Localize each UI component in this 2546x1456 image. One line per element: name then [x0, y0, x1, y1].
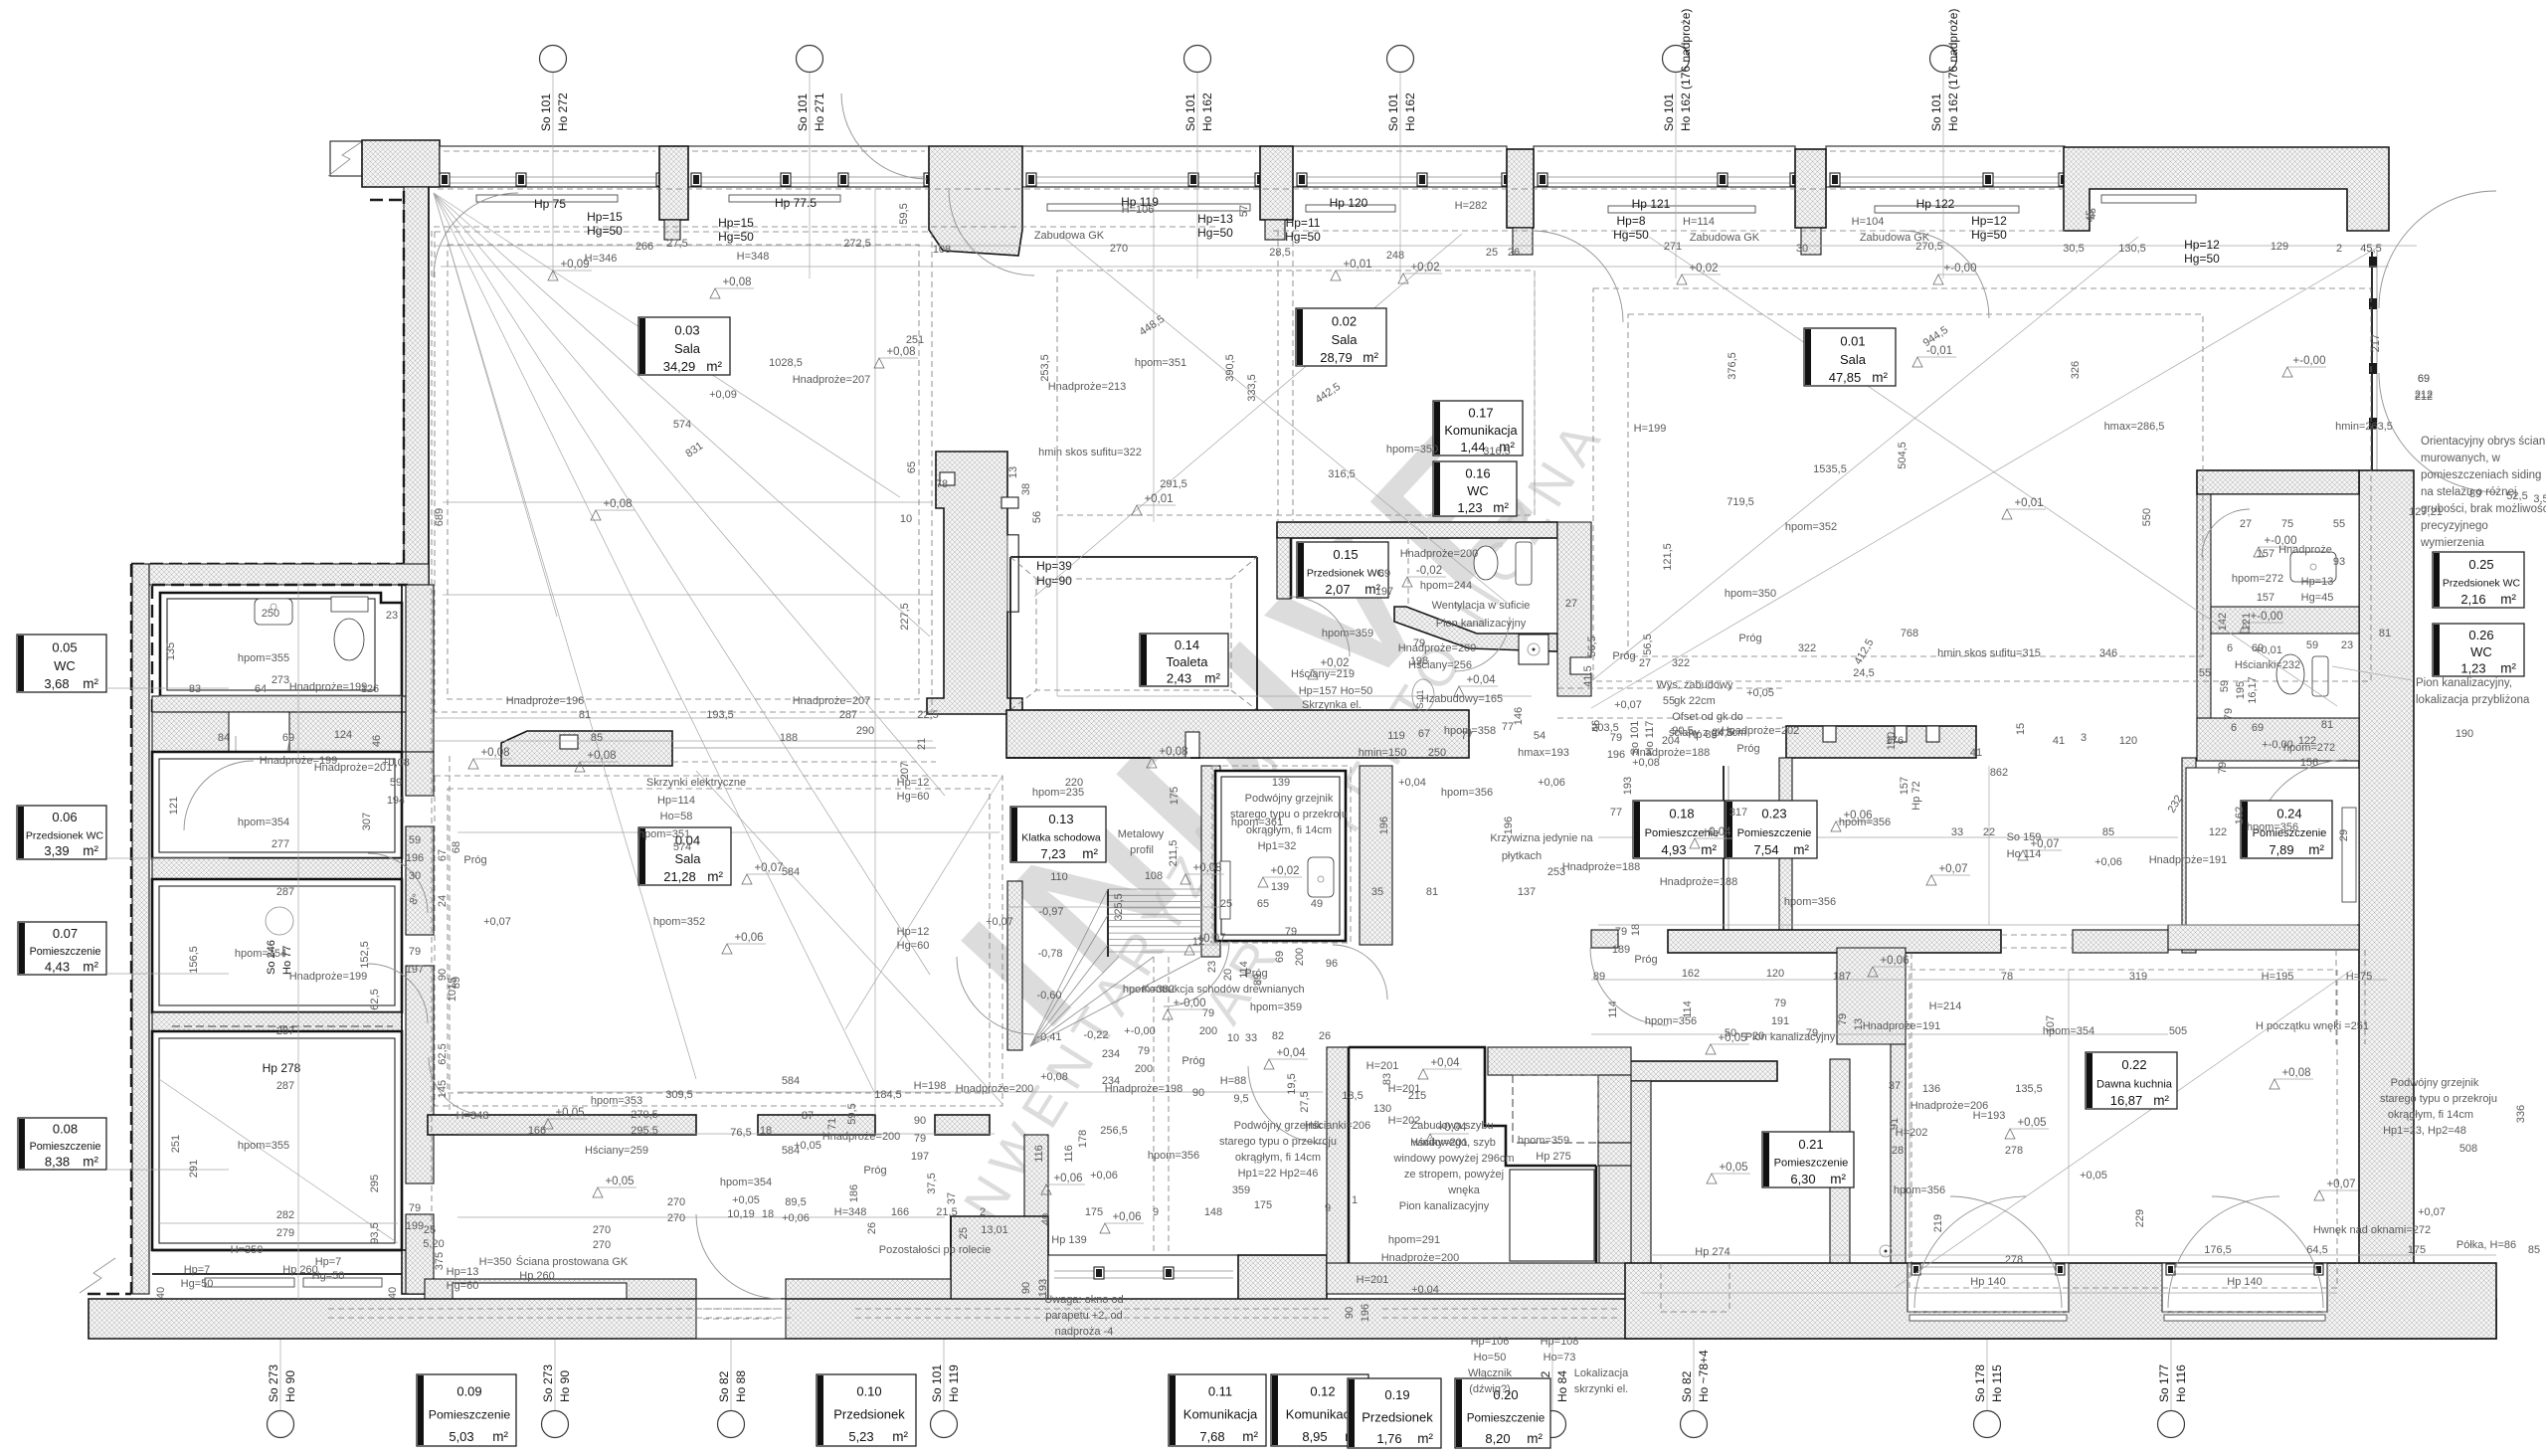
room box 0.14 — [1140, 634, 1228, 686]
svg-text:2,16: 2,16 — [2460, 592, 2485, 607]
room box 0.16 — [1433, 461, 1517, 516]
svg-text:200: 200 — [1135, 1063, 1153, 1075]
room box 0.08 Pomieszczenie — [18, 1118, 106, 1170]
svg-text:m²: m² — [1830, 1172, 1846, 1186]
radiator — [1220, 861, 1230, 919]
svg-text:m²: m² — [1701, 842, 1717, 857]
svg-text:316,5: 316,5 — [1328, 468, 1356, 480]
svg-text:1,23: 1,23 — [2460, 660, 2485, 675]
door arc 7 — [429, 1057, 486, 1115]
svg-text:+0,01: +0,01 — [2014, 497, 2043, 509]
svg-text:H=114: H=114 — [1683, 216, 1715, 228]
svg-text:116: 116 — [1033, 1145, 1045, 1163]
svg-text:Hp 72: Hp 72 — [1910, 781, 1922, 810]
svg-text:1535,5: 1535,5 — [1813, 463, 1847, 475]
svg-text:307: 307 — [361, 813, 373, 830]
svg-text:hmin=150: hmin=150 — [1359, 747, 1407, 759]
elevation marker +0,04 — [1264, 1059, 1274, 1069]
grid bubble So 82/Ho 88 — [718, 1411, 745, 1438]
svg-text:333,5: 333,5 — [1246, 374, 1258, 402]
elevation marker +0,08 — [2270, 1079, 2279, 1089]
svg-text:m²: m² — [2153, 1093, 2169, 1108]
svg-text:m²: m² — [1242, 1429, 1258, 1444]
svg-text:33: 33 — [1951, 826, 1963, 838]
svg-text:Próg: Próg — [1738, 633, 1761, 644]
elevation marker +0,05 — [2005, 1129, 2015, 1139]
room 0.22 dashed inner — [1909, 970, 2337, 1288]
svg-text:hpom=350: hpom=350 — [1386, 444, 1438, 455]
svg-text:65: 65 — [906, 461, 918, 473]
svg-text:Hnadproże=200: Hnadproże=200 — [1400, 548, 1479, 560]
svg-text:Hp 140: Hp 140 — [1970, 1276, 2005, 1288]
svg-text:(dźwig?): (dźwig?) — [1469, 1383, 1511, 1395]
svg-text:Hp 278: Hp 278 — [263, 1061, 301, 1075]
door arc 1 — [434, 193, 518, 277]
door arc 6 — [184, 761, 254, 830]
svg-text:21,28: 21,28 — [663, 869, 696, 884]
landing room dashed outline — [1212, 766, 1351, 943]
svg-text:wymierzenia: wymierzenia — [2420, 537, 2485, 549]
svg-text:Zabudowa GK: Zabudowa GK — [1690, 232, 1760, 244]
svg-text:Hg=50: Hg=50 — [587, 224, 623, 238]
svg-text:291: 291 — [188, 1160, 200, 1178]
svg-text:pomieszczeniach siding: pomieszczeniach siding — [2421, 469, 2541, 481]
window — [453, 1283, 627, 1299]
svg-text:+0,07: +0,07 — [754, 862, 783, 874]
svg-text:211,5: 211,5 — [1168, 840, 1180, 867]
room box 0.02 Sala — [1296, 308, 1386, 366]
svg-text:Hp=7: Hp=7 — [315, 1256, 342, 1268]
svg-text:profil: profil — [1130, 844, 1154, 856]
door arc 20 — [2202, 509, 2250, 557]
svg-text:37,5: 37,5 — [926, 1173, 938, 1193]
svg-text:0.17: 0.17 — [1468, 406, 1493, 421]
svg-text:hpom=356: hpom=356 — [1645, 1015, 1697, 1027]
svg-text:52,5: 52,5 — [2506, 490, 2527, 502]
svg-text:119: 119 — [1387, 730, 1405, 742]
window inner dashed — [1538, 150, 1791, 152]
svg-text:Pomieszczenie: Pomieszczenie — [1774, 1158, 1849, 1170]
elevation marker +0,05 — [593, 1187, 603, 1197]
svg-text:-0,97: -0,97 — [1038, 906, 1063, 918]
svg-text:hpom=351: hpom=351 — [638, 828, 690, 840]
room 0.21 top band — [1620, 1061, 1777, 1081]
svg-text:505: 505 — [2169, 1025, 2187, 1037]
svg-text:26: 26 — [1319, 1030, 1331, 1042]
central pier between 0.03 and 0.02 — [927, 452, 1022, 714]
svg-text:24,5: 24,5 — [1853, 667, 1874, 679]
svg-text:6: 6 — [2227, 642, 2233, 654]
svg-text:77: 77 — [1461, 730, 1473, 742]
svg-text:-0,22: -0,22 — [1083, 1029, 1108, 1041]
window mullion — [1255, 173, 1265, 186]
svg-text:508: 508 — [2459, 1143, 2477, 1155]
svg-text:windowy powyżej 296cm: windowy powyżej 296cm — [1392, 1153, 1514, 1165]
svg-text:Pozostałości po rolecie: Pozostałości po rolecie — [879, 1244, 992, 1256]
svg-text:Hg=50: Hg=50 — [1197, 226, 1233, 240]
block west wall — [2197, 494, 2211, 758]
svg-text:hpom=351: hpom=351 — [1135, 357, 1186, 369]
diagonals room 0.22 — [1895, 970, 2352, 1288]
svg-text:H=348: H=348 — [737, 251, 770, 263]
grid bubble So 101/Ho 119 — [931, 1411, 958, 1438]
svg-text:186: 186 — [848, 1184, 860, 1202]
watermark INWENTARYZACJA — [939, 688, 1322, 1251]
svg-text:Ho=50: Ho=50 — [1474, 1352, 1507, 1364]
svg-text:H=348: H=348 — [456, 1110, 489, 1122]
svg-text:256,5: 256,5 — [1100, 1125, 1128, 1137]
svg-text:Ho 90: Ho 90 — [283, 1370, 297, 1402]
svg-text:253: 253 — [1547, 866, 1565, 878]
svg-text:8,95: 8,95 — [1302, 1429, 1327, 1444]
room 0.02 dashed outline — [1057, 271, 1535, 515]
svg-text:56: 56 — [1031, 511, 1043, 523]
room box 0.05 WC — [17, 635, 106, 692]
elevation marker +0,02 — [1308, 669, 1318, 679]
svg-text:3: 3 — [2081, 732, 2087, 744]
elevation marker +0,07 — [2314, 1190, 2324, 1200]
slanted wall piece under 0.15 — [1394, 607, 1557, 651]
wall right of bay — [1238, 1255, 1327, 1303]
svg-text:79: 79 — [2223, 708, 2235, 720]
svg-text:Ho 162: Ho 162 — [1200, 92, 1214, 131]
elevation marker +-0,00 — [2240, 623, 2250, 633]
svg-text:0.05: 0.05 — [52, 639, 77, 654]
svg-text:+0,02: +0,02 — [1689, 263, 1718, 274]
window inner dashed — [692, 150, 925, 152]
svg-text:H=88: H=88 — [1220, 1075, 1247, 1087]
pillar P1 — [659, 146, 688, 220]
svg-text:So 159: So 159 — [2007, 831, 2042, 843]
svg-text:Ofset od gk do: Ofset od gk do — [1672, 711, 1743, 723]
svg-text:Dawna kuchnia: Dawna kuchnia — [2096, 1078, 2173, 1090]
svg-text:Hnadproże: Hnadproże — [2278, 544, 2332, 556]
svg-text:40: 40 — [387, 1287, 399, 1299]
svg-text:m²: m² — [83, 676, 98, 691]
svg-text:Hnadproże=198: Hnadproże=198 — [1105, 1083, 1183, 1095]
svg-text:137: 137 — [1518, 886, 1536, 898]
svg-text:okrągłym, fi 14cm: okrągłym, fi 14cm — [2388, 1109, 2473, 1121]
svg-text:Pomieszczenie: Pomieszczenie — [1467, 1411, 1546, 1424]
svg-text:270: 270 — [593, 1239, 611, 1251]
svg-text:Hp=8: Hp=8 — [1616, 214, 1645, 228]
svg-text:130,5: 130,5 — [2118, 243, 2146, 255]
svg-text:Komunikacja: Komunikacja — [1183, 1407, 1258, 1422]
svg-text:23: 23 — [2341, 639, 2353, 651]
svg-text:59,5: 59,5 — [846, 1103, 858, 1124]
svg-text:30: 30 — [409, 870, 421, 882]
svg-text:37: 37 — [1889, 1080, 1901, 1092]
svg-text:Pomieszczenie: Pomieszczenie — [1737, 827, 1812, 839]
svg-text:Pion kanalizacyjny: Pion kanalizacyjny — [1399, 1200, 1490, 1212]
elevation marker +0,06 — [1100, 1223, 1110, 1233]
svg-text:287: 287 — [839, 709, 857, 721]
svg-text:96: 96 — [1326, 958, 1338, 970]
svg-text:83: 83 — [189, 683, 201, 695]
room box 0.07 Pomieszczenie — [18, 922, 106, 975]
svg-text:504,5: 504,5 — [1897, 442, 1909, 469]
room 0.22 west dashed — [1910, 953, 1912, 1303]
elevation marker +0,06 — [722, 944, 732, 954]
svg-text:59,5: 59,5 — [898, 203, 910, 224]
toilet in 0.16 — [1474, 546, 1498, 580]
svg-text:108: 108 — [1145, 870, 1163, 882]
room box 0.01 Sala — [1804, 328, 1896, 386]
svg-text:Sala: Sala — [674, 341, 701, 356]
svg-text:H=350: H=350 — [479, 1256, 512, 1268]
svg-text:starego typu o przekroju: starego typu o przekroju — [1230, 809, 1348, 820]
svg-text:hpom=356: hpom=356 — [1441, 787, 1493, 799]
window mullion — [440, 173, 450, 186]
svg-text:27,5: 27,5 — [1299, 1091, 1311, 1112]
svg-text:So 101: So 101 — [1386, 93, 1400, 131]
door arc 10 — [1590, 948, 1668, 1025]
svg-text:+0,05: +0,05 — [1746, 687, 1774, 699]
svg-text:79: 79 — [409, 1202, 421, 1214]
svg-text:55: 55 — [2199, 667, 2211, 679]
window mullion — [1297, 173, 1307, 186]
svg-text:20: 20 — [1222, 969, 1234, 981]
svg-text:203,5: 203,5 — [1591, 722, 1619, 734]
top poche band above 0.05 — [149, 564, 429, 585]
svg-text:So 82: So 82 — [1680, 1370, 1694, 1402]
room 0.08 south window wall — [152, 1249, 402, 1252]
svg-text:89: 89 — [1252, 974, 1264, 986]
svg-text:89: 89 — [2469, 488, 2481, 500]
svg-text:H=201: H=201 — [1357, 1274, 1389, 1286]
elevation marker +-0,00 — [2254, 547, 2264, 557]
svg-text:62,5: 62,5 — [437, 1043, 449, 1064]
svg-text:Ho 116: Ho 116 — [2174, 1365, 2188, 1402]
svg-text:90: 90 — [914, 1115, 926, 1127]
svg-text:Hg=50: Hg=50 — [312, 1270, 345, 1282]
svg-text:79: 79 — [1202, 1007, 1214, 1019]
svg-text:322: 322 — [1798, 642, 1816, 654]
svg-text:Sala: Sala — [1331, 332, 1358, 347]
svg-text:+0,08: +0,08 — [1159, 746, 1187, 758]
svg-text:hpom=356: hpom=356 — [2247, 821, 2298, 833]
svg-text:6: 6 — [2231, 722, 2237, 734]
svg-text:hmin skos sufitu=315: hmin skos sufitu=315 — [1937, 647, 2041, 659]
glazing line — [444, 176, 655, 178]
svg-text:227,5: 227,5 — [899, 603, 911, 631]
svg-text:23: 23 — [1206, 961, 1218, 973]
svg-text:Skrzynki elektryczne: Skrzynki elektryczne — [646, 777, 746, 789]
svg-text:hpom=354: hpom=354 — [720, 1177, 772, 1188]
svg-text:0.02: 0.02 — [1332, 313, 1357, 328]
elevation marker +0,04 — [1418, 1069, 1428, 1079]
svg-text:35: 35 — [1371, 886, 1383, 898]
room box 0.12 — [1271, 1374, 1368, 1446]
svg-text:Skrzynka el.: Skrzynka el. — [1302, 699, 1362, 711]
toilet in 0.05 — [331, 597, 368, 612]
svg-text:199: 199 — [406, 1220, 424, 1232]
svg-text:H=350: H=350 — [231, 1244, 264, 1256]
svg-text:+0,08: +0,08 — [886, 346, 915, 358]
watermark INDIVE — [924, 379, 1581, 1063]
window mullion — [691, 173, 701, 186]
svg-text:390,5: 390,5 — [1224, 354, 1236, 382]
svg-text:okrągłym, fi 14cm: okrągłym, fi 14cm — [1246, 824, 1332, 836]
pier notch — [940, 472, 955, 485]
door arc 3 — [949, 190, 1034, 275]
svg-text:starego typu o przekroju: starego typu o przekroju — [2380, 1093, 2497, 1105]
north-east wall band — [2064, 147, 2389, 231]
window mullion — [1538, 173, 1547, 186]
svg-text:starego typu o przekroju: starego typu o przekroju — [1219, 1136, 1337, 1148]
svg-text:0.11: 0.11 — [1208, 1384, 1232, 1399]
svg-text:55: 55 — [2333, 518, 2345, 530]
south wall of 0.18/0.23 row — [1591, 930, 1618, 948]
svg-text:10: 10 — [1227, 1032, 1239, 1044]
svg-text:H=282: H=282 — [1455, 200, 1488, 212]
south exterior wall band — [89, 1299, 2496, 1339]
svg-text:lokalizacja przybliżona: lokalizacja przybliżona — [2416, 694, 2530, 706]
top dimension chain — [434, 245, 2417, 247]
window W1 north — [440, 146, 659, 187]
svg-text:27: 27 — [1639, 657, 1651, 669]
svg-text:0.25: 0.25 — [2468, 557, 2493, 572]
svg-text:+0,08: +0,08 — [480, 747, 509, 759]
svg-text:m²: m² — [83, 843, 98, 858]
svg-text:+0,06: +0,06 — [1880, 955, 1909, 967]
svg-text:7,54: 7,54 — [1753, 842, 1778, 857]
svg-text:Pion kanalizacyjny,: Pion kanalizacyjny, — [2416, 677, 2512, 689]
svg-text:Ho=73: Ho=73 — [1544, 1352, 1576, 1364]
svg-text:219: 219 — [1932, 1214, 1944, 1232]
window inner dashed — [1297, 150, 1503, 152]
svg-text:0.15: 0.15 — [1333, 547, 1358, 562]
svg-text:135,5: 135,5 — [2015, 1083, 2043, 1095]
grid stem — [552, 73, 554, 195]
window mullion — [1502, 173, 1512, 186]
elevation marker +0,06 — [1831, 821, 1841, 831]
svg-text:Ho 271: Ho 271 — [813, 92, 826, 131]
svg-text:+0,09: +0,09 — [709, 389, 737, 401]
window W3 north — [1022, 146, 1260, 187]
room box 0.04 Sala — [638, 827, 731, 885]
svg-text:78: 78 — [936, 478, 948, 490]
svg-text:59: 59 — [390, 777, 402, 789]
svg-text:Lokalizacja: Lokalizacja — [1574, 1367, 1629, 1379]
svg-text:135: 135 — [165, 642, 177, 660]
svg-text:+0,05: +0,05 — [732, 1194, 760, 1206]
grid stem — [1399, 73, 1401, 195]
svg-text:0.19: 0.19 — [1384, 1387, 1409, 1402]
svg-text:-0,78: -0,78 — [1037, 948, 1062, 960]
pillar P4 — [1507, 149, 1534, 228]
svg-text:So 101: So 101 — [1183, 93, 1197, 131]
svg-text:59: 59 — [409, 834, 421, 846]
svg-text:+0,01: +0,01 — [1343, 259, 1371, 271]
wall stub — [1024, 1135, 1048, 1216]
door arc 5 — [368, 964, 428, 1023]
svg-text:Zabudowa szybu: Zabudowa szybu — [1410, 1120, 1493, 1132]
svg-text:H=346: H=346 — [585, 253, 618, 265]
svg-text:0.23: 0.23 — [1761, 806, 1786, 820]
svg-text:+0,08: +0,08 — [382, 757, 410, 769]
svg-text:hpom=352: hpom=352 — [1785, 521, 1837, 533]
window mullion — [516, 173, 526, 186]
svg-text:-0,41: -0,41 — [1036, 1031, 1061, 1043]
svg-text:hmax=286,5: hmax=286,5 — [2104, 421, 2165, 433]
svg-text:+0,05: +0,05 — [605, 1176, 634, 1187]
svg-text:So 101: So 101 — [539, 93, 553, 131]
window inner dashed — [1026, 150, 1256, 152]
svg-text:768: 768 — [1901, 628, 1918, 639]
svg-text:175: 175 — [1254, 1199, 1272, 1211]
svg-text:0.01: 0.01 — [1840, 333, 1865, 348]
svg-text:19,5: 19,5 — [1286, 1073, 1298, 1094]
svg-text:251: 251 — [170, 1135, 182, 1153]
separator 0.18/0.23 — [1723, 766, 1725, 930]
sill — [303, 1278, 382, 1287]
svg-text:1,44: 1,44 — [1460, 440, 1485, 455]
svg-text:+0,06: +0,06 — [1112, 1211, 1141, 1223]
svg-text:precyzyjnego: precyzyjnego — [2421, 520, 2488, 532]
elevation marker +-0,00 — [2282, 367, 2292, 377]
svg-text:So 273: So 273 — [541, 1365, 555, 1402]
svg-text:Orientacyjny obrys ścian: Orientacyjny obrys ścian — [2421, 436, 2545, 448]
svg-text:108: 108 — [933, 244, 951, 256]
north-west corner wall — [362, 140, 440, 187]
stair east wall — [1201, 766, 1220, 957]
door arc 22 — [1902, 231, 1989, 318]
svg-text:77: 77 — [1610, 807, 1622, 819]
svg-text:0.07: 0.07 — [53, 926, 78, 941]
svg-text:Hwnęk nad oknami=272: Hwnęk nad oknami=272 — [2313, 1224, 2431, 1236]
svg-text:50: 50 — [1725, 1027, 1736, 1039]
svg-text:WC: WC — [54, 658, 76, 673]
svg-text:71: 71 — [826, 1118, 838, 1130]
window sill bar — [1608, 206, 1755, 213]
grid stem — [943, 1340, 945, 1410]
door arc 9 — [1248, 1066, 1326, 1144]
svg-text:272,5: 272,5 — [843, 238, 871, 250]
svg-text:H=201: H=201 — [1388, 1083, 1421, 1095]
thicker south band under room 0.22 — [1625, 1263, 2496, 1339]
svg-text:282: 282 — [276, 1209, 294, 1221]
west poche band — [132, 564, 149, 1294]
window W4 north — [1293, 146, 1507, 187]
svg-text:166: 166 — [891, 1206, 909, 1218]
svg-text:H=193: H=193 — [1973, 1110, 2006, 1122]
svg-text:H=75: H=75 — [2346, 971, 2373, 983]
svg-text:142: 142 — [2217, 613, 2229, 631]
room 0.21 east wall — [1830, 1059, 1850, 1303]
svg-text:+0,08: +0,08 — [1040, 1071, 1068, 1083]
svg-text:m²: m² — [2500, 660, 2516, 675]
svg-text:Hp=108: Hp=108 — [1541, 1336, 1579, 1348]
svg-text:190: 190 — [1886, 732, 1898, 750]
elevation marker +0,02 — [1677, 274, 1687, 284]
svg-text:187: 187 — [1833, 971, 1851, 983]
svg-text:Hg=50: Hg=50 — [718, 230, 754, 244]
room 0.14 Toaleta walls — [1010, 556, 1257, 558]
svg-text:Półka, H=86: Półka, H=86 — [2456, 1239, 2516, 1251]
svg-text:194: 194 — [387, 795, 405, 807]
0.24 south wall — [2168, 925, 2359, 950]
svg-text:250: 250 — [1428, 747, 1446, 759]
svg-text:H=195: H=195 — [2262, 971, 2294, 983]
svg-text:322: 322 — [1672, 657, 1690, 669]
svg-text:hmin=263,5: hmin=263,5 — [2335, 421, 2393, 433]
grid stem — [1986, 1340, 1988, 1410]
window sill bar — [476, 195, 618, 202]
svg-text:Hg=60: Hg=60 — [897, 940, 930, 952]
svg-text:Ho ~78+4: Ho ~78+4 — [1697, 1350, 1711, 1402]
facade dashed line — [438, 188, 2065, 190]
